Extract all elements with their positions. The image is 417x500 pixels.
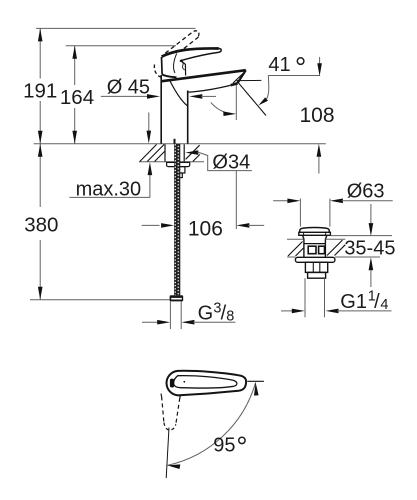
deck hatch left — [140, 144, 157, 161]
lower flange washer — [295, 257, 335, 262]
41° arc between stream line and vertical — [211, 102, 225, 112]
nut step — [175, 173, 182, 178]
dashed handle raised: upper line — [165, 31, 193, 53]
dashed handle tip — [194, 31, 199, 37]
svg-text:Ø63: Ø63 — [347, 181, 385, 203]
hose crimp ferrule — [170, 295, 184, 301]
dashed handle rotated: right edge — [176, 398, 180, 424]
drain nut — [305, 262, 327, 272]
spout tip extension line — [235, 84, 237, 120]
basin bottom line — [287, 256, 295, 258]
dimension 106 — [142, 224, 160, 226]
svg-text:380: 380 — [24, 214, 58, 237]
dashed handle rotated: left edge — [162, 397, 164, 423]
ext line brim underside (35-45 top ref) — [330, 235, 392, 237]
svg-text:41: 41 — [268, 54, 290, 76]
tailpipe — [304, 278, 306, 317]
dimension 164 line — [74, 46, 76, 85]
basin hatch left — [288, 242, 303, 257]
dashed handle raised: lower line — [181, 37, 199, 51]
flexible braided hose — [174, 144, 180, 295]
lever front-right edge — [180, 61, 186, 76]
deck cross-section: bottom line — [139, 161, 204, 163]
svg-text:35-45: 35-45 — [344, 237, 395, 259]
aerator face — [231, 83, 238, 85]
dashed handle base arc — [154, 65, 160, 78]
spout top edge — [161, 70, 246, 81]
dimension 191 line — [39, 28, 41, 78]
max.30 arrow down at deck top — [148, 113, 150, 133]
svg-text:Ø 45: Ø 45 — [107, 77, 150, 99]
valve cap dome — [300, 227, 330, 232]
lever tip — [180, 49, 221, 61]
dashed top connector left — [160, 391, 163, 396]
arc arrow at reference line — [254, 383, 259, 396]
mounting washer — [167, 162, 190, 166]
cap brim — [299, 232, 331, 235]
dashed handle rotated: bottom cap — [164, 423, 176, 431]
thread section squares — [308, 246, 316, 254]
cap neck taper — [303, 235, 305, 239]
cartridge neck left edge — [161, 57, 164, 75]
neck inner detail — [181, 60, 185, 71]
dimension 35-45 — [370, 204, 372, 229]
body fillet curve — [170, 81, 188, 106]
svg-text:G: G — [198, 302, 214, 324]
hose-end extension line (380 bottom) — [30, 299, 170, 301]
body left edge — [160, 75, 162, 144]
svg-text:/: / — [374, 291, 380, 313]
neck bottom edge — [162, 75, 176, 78]
handle inner contour — [174, 376, 237, 388]
mounting nut — [175, 167, 185, 173]
svg-text:106: 106 — [188, 217, 223, 240]
svg-text:164: 164 — [60, 86, 94, 109]
95° arc — [167, 383, 255, 466]
Ø63 extension lines — [299, 199, 301, 227]
G3/8 nipple — [169, 301, 171, 329]
spout tip cut — [238, 70, 246, 83]
label Ø34 with flag leader — [185, 150, 198, 155]
svg-text:191: 191 — [23, 79, 57, 102]
mounting deck surface line — [34, 143, 326, 145]
axis line of rotated handle — [166, 428, 169, 479]
max.30 arrow up at deck underside — [148, 162, 153, 175]
aerator level line — [237, 79, 262, 81]
faucet shank in deck — [164, 144, 166, 161]
valve body through basin — [303, 239, 305, 257]
svg-text:95: 95 — [213, 434, 235, 456]
water stream direction line — [237, 81, 266, 115]
neck front S-curve — [174, 53, 177, 73]
svg-text:G1: G1 — [340, 291, 367, 313]
extension line top of handle (191 level) — [36, 27, 196, 29]
svg-text:Ø34: Ø34 — [212, 151, 250, 173]
dimension 108 — [319, 57, 321, 72]
basin hatch right — [327, 240, 343, 256]
deck hatch right — [186, 145, 200, 159]
lever handle top edge — [162, 48, 219, 56]
dimension 380 line — [39, 144, 41, 207]
reference line right — [247, 380, 264, 382]
handle outline — [167, 371, 247, 396]
nut collar — [308, 272, 326, 278]
handle pivot bar — [170, 379, 174, 388]
svg-text:108: 108 — [299, 104, 334, 127]
handle dot — [183, 381, 185, 383]
extension line top of lever rest (164 level) — [66, 45, 176, 47]
threaded stud above deck — [174, 139, 176, 144]
arc arrow at axis line — [167, 464, 180, 469]
spout underside — [188, 85, 231, 92]
basin surface line — [287, 238, 304, 240]
body right edge — [187, 91, 189, 144]
dashed top connector right — [179, 394, 182, 398]
